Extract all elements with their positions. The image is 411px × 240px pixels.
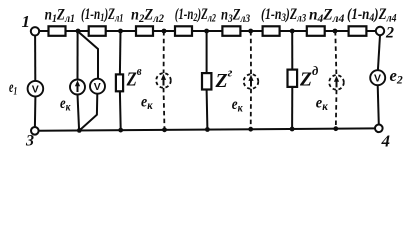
junction top G bbox=[333, 29, 338, 34]
node 3 bbox=[31, 127, 39, 135]
resistor n4 Zl4 bbox=[307, 26, 325, 36]
svg-text:2: 2 bbox=[385, 25, 394, 42]
svg-text:е1: е1 bbox=[9, 78, 17, 98]
junction bottom D bbox=[205, 127, 210, 132]
svg-text:n1Zл1: n1Zл1 bbox=[45, 6, 75, 25]
source e2 voltmeter bbox=[370, 70, 385, 85]
wire dashed ek2 branch bbox=[163, 31, 165, 73]
svg-text:n4Zл4: n4Zл4 bbox=[309, 6, 344, 25]
svg-text:ек: ек bbox=[141, 94, 153, 112]
resistor n2 Zl2 bbox=[136, 26, 153, 36]
svg-text:V: V bbox=[94, 81, 101, 93]
svg-text:ек: ек bbox=[232, 96, 243, 115]
junction bottom E bbox=[248, 127, 253, 132]
junction bottom A bbox=[77, 128, 82, 133]
source ek2 dashed bbox=[156, 73, 171, 88]
node 4 bbox=[375, 125, 383, 133]
svg-text:1: 1 bbox=[22, 12, 31, 31]
source e1 voltmeter bbox=[28, 81, 44, 97]
wire ek1 branch bbox=[77, 31, 79, 80]
junction bottom G bbox=[333, 126, 338, 131]
wire e1 branch bbox=[34, 36, 36, 81]
svg-text:Zг: Zг bbox=[215, 64, 233, 92]
svg-text:4: 4 bbox=[381, 132, 391, 151]
resistor n1 Zl1 bbox=[49, 26, 66, 36]
junction bottom C bbox=[162, 127, 167, 132]
source ek1 bbox=[70, 80, 85, 95]
svg-text:(1-n2)Zл2: (1-n2)Zл2 bbox=[175, 5, 216, 25]
junction top D bbox=[204, 29, 209, 34]
wire Zv branch bbox=[119, 31, 122, 74]
node 2 bbox=[376, 27, 384, 35]
wire dashed ek4 branch bbox=[335, 31, 336, 75]
wire Zg branch bbox=[206, 31, 208, 73]
svg-text:V: V bbox=[32, 83, 39, 95]
svg-text:ек: ек bbox=[316, 94, 329, 113]
impedance Zg bbox=[202, 73, 211, 89]
impedance Zd bbox=[288, 70, 298, 87]
resistor (1-n4) Zl4 bbox=[349, 26, 367, 36]
svg-text:Zв: Zв bbox=[126, 63, 143, 90]
svg-text:(1-n4)Zл4: (1-n4)Zл4 bbox=[347, 6, 397, 25]
junction bottom F bbox=[290, 127, 295, 132]
wire voltmeter branch bbox=[78, 32, 98, 79]
svg-text:n3Zл3: n3Zл3 bbox=[221, 6, 251, 25]
resistor (1-n3) Zl3 bbox=[263, 26, 280, 36]
svg-text:(1-n3)Zл3: (1-n3)Zл3 bbox=[261, 5, 306, 25]
impedance Zv bbox=[116, 74, 123, 91]
wire bottom rail bbox=[39, 128, 376, 130]
svg-text:3: 3 bbox=[25, 133, 34, 150]
source ek3 dashed bbox=[244, 74, 259, 89]
junction top F bbox=[290, 29, 295, 34]
svg-text:n2Zл2: n2Zл2 bbox=[131, 6, 164, 25]
junction top C bbox=[162, 29, 167, 34]
junction top A bbox=[76, 29, 81, 34]
voltmeter V1 bbox=[90, 79, 105, 94]
wire e2 branch bbox=[378, 35, 380, 70]
junction top B bbox=[118, 29, 123, 34]
wire dashed ek3 branch bbox=[250, 31, 252, 74]
wire top rail bbox=[40, 30, 376, 32]
junction bottom B bbox=[118, 128, 123, 133]
wire Zd branch bbox=[291, 31, 293, 70]
resistor (1-n2) Zl2 bbox=[175, 26, 192, 36]
resistor (1-n1) Zl1 bbox=[89, 26, 106, 36]
svg-text:(1-n1)Zл1: (1-n1)Zл1 bbox=[81, 5, 123, 25]
svg-text:ек: ек bbox=[60, 95, 71, 114]
junction top E bbox=[248, 29, 253, 34]
source ek4 dashed bbox=[329, 75, 344, 90]
node 1 bbox=[31, 27, 39, 35]
svg-text:V: V bbox=[374, 72, 381, 84]
svg-text:Zд: Zд bbox=[299, 64, 319, 91]
resistor n3 Zl3 bbox=[222, 26, 240, 36]
svg-text:е2: е2 bbox=[390, 66, 403, 87]
